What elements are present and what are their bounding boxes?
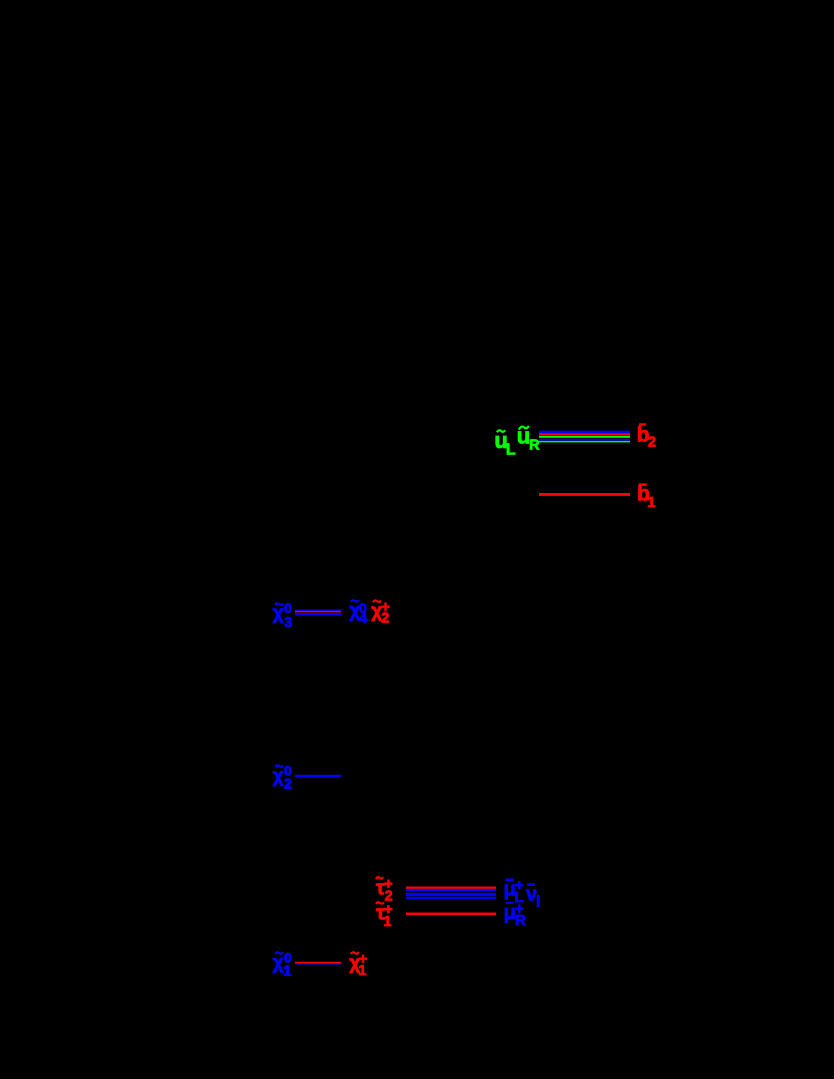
label b2 (red) xyxy=(637,423,656,450)
svg-text:2: 2 xyxy=(381,611,389,627)
line snu double (blue) xyxy=(406,893,496,896)
label chi04 (blue) xyxy=(349,600,367,627)
line chi03 (blue) xyxy=(295,613,341,615)
label smuR (blue) xyxy=(504,901,526,929)
label uR (green) xyxy=(517,424,540,454)
line squark green (uR) xyxy=(539,441,630,443)
label smuL (blue) xyxy=(504,877,524,906)
svg-text:1: 1 xyxy=(383,914,391,930)
svg-text:0: 0 xyxy=(284,600,292,616)
label chi02 (blue) xyxy=(273,763,292,793)
svg-text:4: 4 xyxy=(359,611,367,627)
svg-text:l: l xyxy=(536,894,540,911)
line stau2 (red) xyxy=(406,887,496,889)
svg-text:1: 1 xyxy=(647,495,655,511)
line squark red (b2) xyxy=(539,433,630,435)
svg-text:R: R xyxy=(515,912,526,929)
line squark blue (dL) xyxy=(539,439,630,441)
label chi+2 (red) xyxy=(371,598,390,626)
line b1 (red) xyxy=(539,493,630,496)
svg-text:1: 1 xyxy=(283,963,291,979)
label uL (green) xyxy=(494,428,516,459)
label chi03 (blue) xyxy=(273,600,293,631)
svg-text:χ: χ xyxy=(273,952,284,973)
line squark blue (t2) xyxy=(539,431,630,433)
label snu_l (blue) xyxy=(526,883,540,911)
line chi+1 (red, overlaps chi01) xyxy=(295,962,341,964)
label chi+1 (red) xyxy=(349,950,367,979)
label chi01 (blue) xyxy=(273,950,292,980)
line squark green (uL) xyxy=(539,436,630,438)
svg-text:χ: χ xyxy=(273,603,284,624)
svg-text:3: 3 xyxy=(284,615,292,631)
svg-text:χ: χ xyxy=(273,766,284,787)
svg-text:R: R xyxy=(529,437,540,453)
label stau1 (red) xyxy=(376,901,393,930)
line chi+2 (red, overlaps chi04) xyxy=(295,611,341,613)
svg-text:2: 2 xyxy=(284,776,292,792)
svg-text:2: 2 xyxy=(648,434,656,450)
line chi02 (blue) xyxy=(295,775,341,777)
label b1 (red) xyxy=(637,483,655,512)
label stau2 (red) xyxy=(376,876,393,905)
line smuL (blue) xyxy=(406,889,496,891)
line stau1/smuR (red) xyxy=(406,913,496,916)
svg-text:1: 1 xyxy=(358,963,366,979)
line snutau (blue) xyxy=(406,897,496,899)
line chi01 (blue) xyxy=(295,963,341,965)
svg-text:L: L xyxy=(506,441,516,458)
line chi04 (blue) xyxy=(295,610,341,612)
